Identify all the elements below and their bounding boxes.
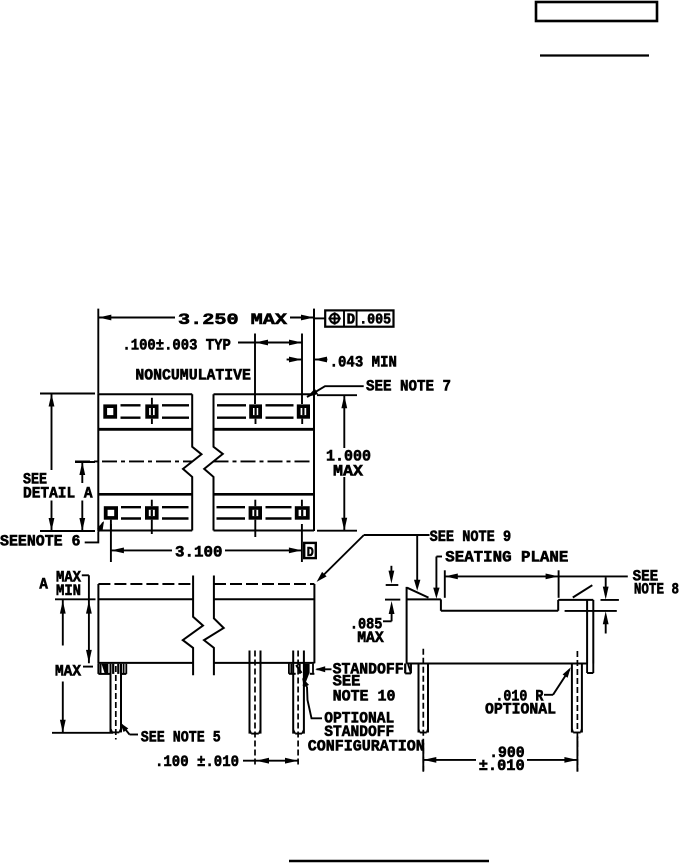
top view contact bars lower band <box>121 506 141 508</box>
svg-text:SEE NOTE 5: SEE NOTE 5 <box>141 729 221 747</box>
end view pin right <box>571 664 573 733</box>
feature control frame box <box>325 310 393 326</box>
dimension recess depth arrows <box>605 577 607 595</box>
end view outline <box>406 587 408 664</box>
top view outline <box>97 393 99 531</box>
side view left height dimension MAX <box>55 598 96 600</box>
datum flag D <box>304 543 316 558</box>
top view pad A3 <box>249 404 262 418</box>
side view left standoff <box>97 663 99 674</box>
dimension .900 +-.010 <box>422 743 424 771</box>
side view pin 3 with optional standoff <box>292 651 294 734</box>
dimension .100 TYP line <box>238 342 302 344</box>
svg-text:MAX: MAX <box>55 663 81 681</box>
svg-text:MIN: MIN <box>56 582 81 600</box>
svg-text:3.250 MAX: 3.250 MAX <box>178 311 287 329</box>
svg-text:CONFIGURATION: CONFIGURATION <box>308 738 425 756</box>
svg-text:NOTE 8: NOTE 8 <box>634 581 679 599</box>
svg-text:SEENOTE 6: SEENOTE 6 <box>0 533 81 551</box>
svg-text:.100±.003 TYP: .100±.003 TYP <box>122 337 230 355</box>
svg-text:3.100: 3.100 <box>175 544 223 562</box>
left outer dimension line (see detail) <box>51 394 53 471</box>
dimension .043 MIN arrows <box>287 359 302 361</box>
side view inner dimension A <box>82 574 89 576</box>
top view break line right <box>204 394 223 530</box>
svg-text:SEE NOTE 9: SEE NOTE 9 <box>430 528 512 546</box>
leader SEATING PLANE <box>436 556 442 558</box>
leader SEE NOTE 6 <box>85 523 103 543</box>
leader SEE NOTE 8 <box>559 575 628 577</box>
top view pad B1 (corner) <box>104 506 118 520</box>
svg-text:DETAIL A: DETAIL A <box>23 485 93 503</box>
leader SEE NOTE 9 <box>364 534 430 536</box>
side view break line left <box>183 576 203 676</box>
svg-text:±.010: ±.010 <box>479 757 525 775</box>
svg-text:SEE NOTE 7: SEE NOTE 7 <box>366 378 451 396</box>
dimension 3.100 extension lines <box>110 524 112 562</box>
dimension 3.250 MAX extension line left <box>97 309 99 394</box>
title block box (top right) <box>536 2 657 21</box>
svg-text:MAX: MAX <box>333 463 363 481</box>
top view contact bars upper band <box>121 404 141 406</box>
feature control frame position symbol <box>330 314 339 323</box>
top view horizontal centerline <box>75 460 192 462</box>
leader OPTIONAL STANDOFF <box>307 687 322 718</box>
svg-text:D: D <box>347 312 356 329</box>
svg-text:MAX: MAX <box>357 629 384 647</box>
dimension 3.250 MAX line <box>98 317 175 319</box>
side view break line right <box>204 576 224 676</box>
svg-text:NONCUMULATIVE: NONCUMULATIVE <box>135 367 251 385</box>
dimension seating plane width <box>444 570 446 598</box>
dimension .100 TYP extension lines <box>254 334 256 405</box>
side view outline <box>97 584 99 663</box>
svg-text:OPTIONAL: OPTIONAL <box>485 700 556 718</box>
dimension 3.100 line <box>111 549 172 551</box>
svg-text:.100 ±.010: .100 ±.010 <box>155 753 239 771</box>
svg-text:NOTE 10: NOTE 10 <box>333 687 396 705</box>
end view right standoff tab <box>586 664 588 674</box>
top view band lines <box>98 428 192 431</box>
side view pin 2 <box>249 651 251 734</box>
side view pin 1 <box>110 664 112 733</box>
top view pad A1 (corner) <box>103 404 117 418</box>
leader STANDOFF <box>317 668 332 670</box>
svg-text:.043 MIN: .043 MIN <box>330 354 397 372</box>
left dimension extension ticks <box>40 393 95 395</box>
top view pad B3 <box>249 506 262 520</box>
svg-text:.005: .005 <box>359 312 391 329</box>
side view hidden top line (max height) <box>98 583 192 585</box>
title block underline <box>540 54 649 56</box>
top view pad A4 (datum pad) <box>297 404 310 418</box>
bottom rule line <box>289 860 489 862</box>
top view break line left <box>183 394 202 530</box>
feature control frame leader <box>314 317 325 319</box>
svg-text:SEATING PLANE: SEATING PLANE <box>445 549 568 567</box>
end view left standoff tab <box>404 664 406 674</box>
dimension 1.000 MAX extension ticks <box>317 394 357 396</box>
dimension recess depth (note 8) ticks <box>601 599 619 601</box>
leader SEE NOTE 7 <box>307 386 364 397</box>
leader SEE NOTE 5 <box>130 734 139 736</box>
end view left chamfer <box>407 588 428 598</box>
leader .010 R <box>544 694 553 696</box>
svg-text:A: A <box>39 576 48 594</box>
top view pad B4 <box>295 506 310 520</box>
end view right chamfer <box>573 585 593 597</box>
left inner dimension line A <box>81 462 83 483</box>
side view right standoff <box>288 663 290 674</box>
dimension .100 +-.010 (pin spacing) <box>243 760 298 762</box>
dimension 1.000 MAX line <box>343 395 345 448</box>
end view pin left <box>418 664 420 733</box>
top view pad A2 <box>145 404 158 418</box>
svg-text:D: D <box>307 545 314 561</box>
top view pad B2 <box>145 506 159 520</box>
dimension .085 MAX arrows <box>390 566 392 579</box>
